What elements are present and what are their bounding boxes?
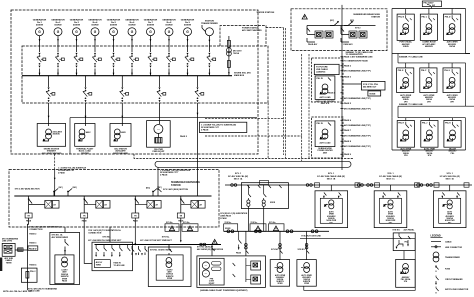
- row2 connector wire: [398, 54, 455, 68]
- generator G7: [144, 18, 158, 52]
- legend row transformer: [433, 252, 439, 262]
- svg-text:PAGE: PAGE: [82, 220, 88, 223]
- svg-text:TERM: TERM: [96, 264, 102, 266]
- svg-text:480V: 480V: [121, 131, 126, 134]
- svg-text:4KV SUBMARINE LINE (TYP): 4KV SUBMARINE LINE (TYP): [344, 134, 371, 137]
- swgr feed wire BB1: [64, 227, 66, 232]
- breaker CB-G4: [92, 53, 101, 68]
- bus tie switch S1: [54, 187, 63, 196]
- svg-text:4KV SUBMARINE LINE (TYP): 4KV SUBMARINE LINE (TYP): [344, 145, 371, 148]
- generator G5: [107, 18, 121, 52]
- svg-text:PNL W: PNL W: [317, 78, 323, 80]
- branch drop continuation wires: [84, 218, 181, 263]
- transformer box TB2: [75, 124, 95, 155]
- node box MB2: [197, 231, 266, 287]
- svg-text:ULT LOAD CKT SW SECT XFMR SECT: ULT LOAD CKT SW SECT XFMR SECT: [140, 239, 173, 242]
- station transformer circle: [201, 20, 218, 53]
- svg-text:4KV SWITCHBOARD: 4KV SWITCHBOARD: [242, 29, 262, 32]
- lower bus box LB3 with warning triangle W4: [269, 222, 285, 232]
- svg-text:PAGE 7: PAGE 7: [344, 129, 351, 132]
- svg-text:SUBMERGED BRANCHING: SUBMERGED BRANCHING: [171, 181, 200, 184]
- submarine cable dashed trunk E: [308, 54, 310, 158]
- svg-text:NODE: NODE: [270, 202, 276, 204]
- svg-text:AUTO LOAD: AUTO LOAD: [320, 96, 332, 99]
- riser wire from station: [341, 5, 343, 170]
- svg-text:NOTE: ALL CBL No.1 ARE TYP.: NOTE: ALL CBL No.1 ARE TYP.: [3, 290, 32, 293]
- svg-text:2 PAGE: 2 PAGE: [58, 172, 66, 175]
- svg-text:SW: SW: [432, 5, 435, 7]
- generator G1: [33, 18, 47, 52]
- svg-text:500KW: 500KW: [91, 24, 99, 26]
- svg-text:FUSE: FUSE: [445, 268, 451, 270]
- legend row cable: [431, 240, 441, 242]
- svg-text:PNL G: PNL G: [444, 70, 450, 72]
- svg-text:AUX. SWITCHBOARD: AUX. SWITCHBOARD: [41, 152, 62, 155]
- svg-text:4KV SUBMARINE LINE (TYP): 4KV SUBMARINE LINE (TYP): [344, 97, 371, 100]
- svg-text:SHORE STATION: SHORE STATION: [257, 11, 275, 14]
- submarine cable dashed route B: [205, 28, 286, 159]
- svg-text:PAGE 6: PAGE 6: [344, 119, 351, 122]
- inner dashed switchboard enclosure: [22, 46, 268, 103]
- aux panel box A: [393, 233, 415, 251]
- svg-text:FEED EQUIP: FEED EQUIP: [153, 151, 165, 153]
- feeder breaker CB-F3: [120, 87, 129, 102]
- svg-text:500KW: 500KW: [54, 24, 62, 26]
- svg-text:SECT. 1D: SECT. 1D: [445, 178, 454, 180]
- load center box LC5: [420, 68, 437, 93]
- svg-text:SECT. 1A: SECT. 1A: [234, 177, 243, 180]
- svg-text:500KW: 500KW: [110, 24, 118, 26]
- lower bus box LB2 with warning triangle W3: [250, 222, 266, 232]
- svg-text:PNL C: PNL C: [422, 16, 428, 18]
- svg-text:4KV SWGR BRKR: 4KV SWGR BRKR: [52, 236, 69, 239]
- svg-text:(NC): (NC): [59, 187, 63, 189]
- feeder F3 wire: [121, 76, 123, 87]
- svg-text:TO 4KV LINE: TO 4KV LINE: [114, 264, 126, 267]
- svg-text:PNL F: PNL F: [421, 70, 427, 72]
- svg-text:PAGE 5: PAGE 5: [344, 102, 352, 105]
- svg-text:PAGE 2: PAGE 2: [180, 135, 187, 138]
- right column enclosure row1: [455, 9, 466, 54]
- svg-text:PAGE W: PAGE W: [29, 247, 37, 250]
- svg-text:4KV SUBMARINE LINE (TYP): 4KV SUBMARINE LINE (TYP): [344, 124, 371, 127]
- feeder breaker CB-F4: [157, 87, 166, 102]
- lower bus box LB0a with warning triangle: [165, 222, 179, 232]
- svg-text:SYS NO.: SYS NO.: [271, 249, 279, 251]
- outer dashed enclosure shore station: [11, 10, 258, 154]
- legend row switch disconnector: [436, 287, 439, 294]
- substation box SB2: [297, 231, 316, 286]
- svg-text:2 PAGE: 2 PAGE: [220, 217, 227, 220]
- note box SYS2 TGL: [342, 81, 385, 96]
- aux panel enclosure: [300, 239, 415, 291]
- svg-text:SYS NO. 1B 4KV SWGR: SYS NO. 1B 4KV SWGR: [150, 248, 172, 251]
- svg-text:PAGE: PAGE: [26, 220, 32, 223]
- svg-text:PNL: PNL: [405, 242, 408, 244]
- svg-text:SYS NO.: SYS NO.: [298, 249, 306, 251]
- svg-text:480V 3PH: 480V 3PH: [321, 102, 330, 105]
- svg-text:480/208V: 480/208V: [425, 45, 434, 48]
- svg-text:300KVA: 300KVA: [53, 133, 61, 136]
- breaker CB-ST: [207, 53, 216, 68]
- svg-text:500KW: 500KW: [165, 24, 173, 26]
- bottom bus small drops: [132, 246, 147, 255]
- svg-text:500KW: 500KW: [147, 24, 155, 26]
- svg-text:2/C 4KV SUB CABLE (W): 2/C 4KV SUB CABLE (W): [379, 175, 402, 178]
- note box shore cable: [199, 122, 246, 132]
- svg-text:PAGE 3: PAGE 3: [344, 76, 351, 79]
- main riser wire left: [27, 218, 28, 290]
- breaker CB-G5: [111, 53, 120, 68]
- feeder F5 wire: [197, 76, 199, 87]
- dashed wrap around auto load boxes 1: [312, 58, 344, 102]
- fuse F-ST: [227, 40, 230, 47]
- equipment room enclosure line: [70, 118, 257, 154]
- svg-text:SYS 3 4KV (BUS) SECTION: SYS 3 4KV (BUS) SECTION: [163, 188, 188, 191]
- node row bus: [225, 184, 472, 186]
- svg-text:PAGE: PAGE: [133, 220, 139, 223]
- auto load center box 1: [315, 76, 335, 100]
- svg-text:(NC): (NC): [330, 20, 334, 22]
- svg-text:4KV SUBMARINE LINE (TYP): 4KV SUBMARINE LINE (TYP): [344, 107, 371, 110]
- legend row line connector: [431, 246, 441, 248]
- repeater joint box JB: [241, 181, 288, 209]
- breaker CB-G9: [185, 53, 194, 68]
- load center box LC8: [421, 121, 438, 148]
- lower bus box LB1: [224, 222, 238, 232]
- load center box LC3: [444, 14, 461, 40]
- JB left joints: [231, 184, 237, 187]
- svg-text:LINE (TYP): LINE (TYP): [2, 241, 12, 243]
- cable terminal box T1: [2, 243, 15, 256]
- svg-text:PAGE 9: PAGE 9: [344, 153, 351, 156]
- riser left labels: [2, 225, 63, 266]
- svg-text:SWGR: SWGR: [225, 228, 231, 230]
- svg-text:(SUBSEA CABLE PLANT POWERFEED: (SUBSEA CABLE PLANT POWERFEED EQUIPMENT): [200, 289, 248, 292]
- svg-text:PNL J: PNL J: [422, 123, 427, 125]
- svg-text:500KW: 500KW: [73, 24, 81, 26]
- 4kV main bus: [22, 75, 232, 77]
- svg-text:PAGE: PAGE: [236, 252, 242, 255]
- svg-text:TERM: TERM: [6, 262, 12, 264]
- feeder breaker CB-F5: [195, 87, 204, 102]
- PNL header box: [422, 1, 441, 7]
- svg-text:TRANSFORMER: TRANSFORMER: [201, 22, 218, 25]
- svg-text:STATION: STATION: [171, 184, 181, 187]
- branch group BG6: [341, 26, 367, 47]
- svg-text:XFMR: XFMR: [278, 283, 284, 285]
- svg-text:SUBMAR. TV CABLE LINE: SUBMAR. TV CABLE LINE: [399, 56, 423, 59]
- svg-text:MAIN BUS: MAIN BUS: [234, 74, 245, 77]
- swgr box BB1: [50, 232, 80, 284]
- svg-text:PAGE 4: PAGE 4: [29, 264, 37, 267]
- generator G2: [51, 18, 65, 52]
- svg-text:···: ···: [205, 273, 208, 276]
- svg-text:SYS 2: SYS 2: [355, 28, 361, 30]
- auto load center box 2: [315, 121, 335, 147]
- svg-text:30KVA: 30KVA: [449, 45, 455, 48]
- top-right station dashed enclosure: [291, 9, 387, 51]
- right column enclosure row2: [455, 54, 470, 107]
- svg-text:SWITCHBOARD: SWITCHBOARD: [113, 152, 128, 155]
- T1 link wire: [15, 249, 27, 251]
- svg-text:PNL D: PNL D: [445, 16, 451, 18]
- svg-text:SWITCH DISCONNECTOR: SWITCH DISCONNECTOR: [445, 289, 469, 291]
- svg-text:PAGE 2: PAGE 2: [29, 233, 36, 236]
- transformer box TB1: [37, 124, 65, 155]
- generator G9: [181, 18, 195, 52]
- svg-text:30KVA: 30KVA: [403, 45, 409, 48]
- warning triangle W1: [302, 14, 307, 19]
- branch group BG3: [132, 196, 161, 223]
- page W box: [28, 246, 38, 250]
- svg-text:SYS No.: SYS No.: [162, 237, 170, 239]
- node station box N1: [315, 185, 348, 228]
- svg-text:PNL B: PNL B: [398, 16, 404, 18]
- svg-text:(NO): (NO): [73, 187, 78, 189]
- branching station dashed enclosure: [9, 170, 219, 228]
- bus junction arrows: [39, 73, 41, 75]
- svg-text:···: ···: [205, 265, 208, 268]
- submarine cable dashed route C: [205, 54, 302, 161]
- breaker CB-G2: [55, 53, 64, 68]
- svg-text:PNL 2: PNL 2: [30, 271, 35, 273]
- submarine cable bundle stadium: [155, 161, 351, 167]
- svg-text:CONNECTION: CONNECTION: [88, 233, 102, 235]
- breaker CB-G7: [148, 53, 157, 68]
- svg-text:PAGE 4KV: PAGE 4KV: [344, 43, 354, 46]
- generator G4: [88, 18, 102, 52]
- svg-text:PNL K: PNL K: [445, 123, 451, 125]
- svg-text:75KVA: 75KVA: [233, 52, 240, 55]
- svg-text:(W) NEW CUT: (W) NEW CUT: [363, 87, 377, 89]
- power station dashed bump: [220, 26, 266, 46]
- svg-text:NODE: NODE: [370, 94, 377, 96]
- node box MB1: [148, 245, 191, 287]
- fuse FL1: [18, 248, 23, 251]
- load center box LC9: [444, 121, 461, 148]
- svg-text:2/C 4KV SUB CBL (W): 2/C 4KV SUB CBL (W): [440, 175, 460, 178]
- breaker CB-G6: [129, 53, 138, 68]
- svg-text:EQUIP: EQUIP: [209, 283, 215, 285]
- header connector wire: [405, 7, 454, 15]
- svg-text:CIRCUIT BREAKER: CIRCUIT BREAKER: [445, 278, 463, 281]
- svg-text:SECT. 1C: SECT. 1C: [386, 178, 395, 180]
- bottom distribution bus: [95, 244, 222, 246]
- generator G6: [125, 18, 139, 52]
- svg-text:2 PAGE: 2 PAGE: [201, 128, 209, 131]
- lower right bus: [224, 230, 329, 232]
- svg-text:480V: 480V: [86, 131, 91, 134]
- legend row fuse: [436, 265, 439, 272]
- svg-text:4KV SWGR (W) SUBSTATION: 4KV SWGR (W) SUBSTATION: [197, 248, 224, 251]
- riser lower fuse: [227, 61, 230, 68]
- future use box: [314, 64, 339, 74]
- svg-text:CONNECTION: CONNECTION: [29, 229, 43, 231]
- svg-text:PNL W: PNL W: [317, 123, 323, 125]
- load center box LC7: [397, 121, 414, 148]
- svg-text:PNL H: PNL H: [398, 123, 404, 125]
- shore feeder into branching station: [54, 154, 56, 170]
- svg-text:SUBMERGED BRANCHING: SUBMERGED BRANCHING: [353, 13, 380, 16]
- svg-text:SYS NO.: SYS NO.: [102, 237, 111, 239]
- generator G8: [162, 18, 176, 52]
- svg-text:SECT. 1B: SECT. 1B: [327, 178, 336, 180]
- transformer box TB3: [110, 124, 131, 155]
- submarine TV cable line: [392, 53, 470, 55]
- lower bus drop D1: [239, 231, 242, 249]
- row3 connector wire: [398, 106, 454, 120]
- panel box T2: [21, 268, 37, 282]
- svg-text:TO OBSERVATORY NODE: TO OBSERVATORY NODE: [344, 60, 369, 63]
- feeder F4 wire: [159, 76, 161, 87]
- generator G3: [70, 18, 84, 52]
- svg-text:SYS NO.: SYS NO.: [392, 230, 400, 232]
- svg-text:LINE CONNECTOR: LINE CONNECTOR: [445, 247, 463, 249]
- svg-text:2/C 4KV SUB CABLE LINE (W): 2/C 4KV SUB CABLE LINE (W): [317, 175, 345, 178]
- svg-text:PAGE 8: PAGE 8: [344, 140, 352, 143]
- power station feed line: [228, 36, 230, 76]
- svg-text:500KW: 500KW: [36, 24, 44, 26]
- svg-text:LEGEND: LEGEND: [431, 235, 441, 238]
- bus end joints: [200, 243, 206, 246]
- mid column line: [398, 105, 474, 107]
- aux panel AB wire: [403, 251, 405, 260]
- right column enclosure row3: [392, 118, 466, 150]
- breaker CB-G1: [37, 53, 46, 68]
- substation feed wire BB2: [109, 227, 111, 242]
- tie switch S4: [330, 20, 339, 26]
- bus entry switch S0: [146, 186, 162, 192]
- branch group BG5: [307, 26, 333, 47]
- riser tick labels: [328, 56, 373, 157]
- bus tie switch S3: [153, 187, 162, 196]
- svg-text:PAGE 1 4KV SUBMARINE LINE: PAGE 1 4KV SUBMARINE LINE: [344, 56, 373, 59]
- svg-text:ULT LOAD BRK PNL SWBD XFMR SEC: ULT LOAD BRK PNL SWBD XFMR SECT: [88, 239, 122, 242]
- feeder breaker CB-F2: [83, 87, 92, 102]
- JB drop wires: [248, 206, 263, 231]
- branch group BG4: [177, 196, 205, 223]
- load center box LC4: [397, 68, 414, 93]
- svg-text:PAGE 2: PAGE 2: [344, 65, 351, 68]
- warning triangle W2: [212, 239, 217, 244]
- svg-text:(NO): (NO): [350, 20, 355, 22]
- load center box LC1: [397, 14, 414, 40]
- feeder F1 wire: [48, 76, 50, 87]
- svg-text:PAGE 4KV: PAGE 4KV: [308, 43, 318, 46]
- node bus joints: [306, 184, 432, 187]
- node bus LT boxes: [315, 183, 470, 187]
- breaker CB-G3: [74, 53, 83, 68]
- svg-text:PAGE: PAGE: [62, 280, 68, 283]
- shore cable exit dashed wire: [134, 154, 354, 158]
- svg-text:SYS 3 4KV (BUS) SECTION: SYS 3 4KV (BUS) SECTION: [15, 187, 40, 190]
- left edge mark: [0, 258, 2, 272]
- feeder breaker CB-F1: [46, 87, 55, 102]
- svg-text:PNL E: PNL E: [398, 70, 404, 72]
- svg-text:XFMR: XFMR: [304, 283, 310, 285]
- svg-text:2/C 4KV SUB CBL (W): 2/C 4KV SUB CBL (W): [228, 175, 248, 178]
- load center box LC2: [420, 14, 437, 40]
- svg-text:STATION: STATION: [371, 16, 380, 19]
- substation box BB2: [92, 242, 133, 271]
- aux panel box B: [396, 259, 416, 287]
- svg-text:CABLE: CABLE: [445, 240, 452, 243]
- node station box N3: [433, 185, 466, 228]
- branching 4kV bus: [14, 195, 211, 197]
- dashed wrap around auto load boxes 2: [312, 117, 344, 158]
- svg-text:4KV SUBMARINE LINE (TYP): 4KV SUBMARINE LINE (TYP): [344, 70, 371, 73]
- breaker CB-G8: [166, 53, 175, 68]
- bus tie switch S2: [68, 187, 78, 196]
- svg-text:LANDING: LANDING: [316, 71, 326, 74]
- svg-text:AUX PANEL: AUX PANEL: [404, 229, 416, 232]
- svg-text:TRANSFORMER: TRANSFORMER: [445, 256, 460, 259]
- PFE box TB4: [147, 121, 171, 154]
- riser tick marks: [341, 57, 344, 155]
- svg-text:2 PAGE: 2 PAGE: [160, 174, 168, 177]
- svg-text:500KW: 500KW: [184, 24, 192, 26]
- svg-text:CENTER: CENTER: [81, 153, 90, 155]
- svg-text:SYS 2 TGL PNL: SYS 2 TGL PNL: [363, 84, 379, 86]
- svg-text:500KW: 500KW: [128, 24, 136, 26]
- right column left riser: [392, 9, 405, 118]
- cable bundle drop wire: [157, 167, 159, 196]
- branch group BG1: [25, 196, 59, 223]
- internal bus top-right station: [307, 25, 376, 27]
- substation box SB1: [270, 231, 289, 286]
- svg-text:(NC): (NC): [158, 187, 162, 189]
- svg-text:SUBMAR. TV CABLE LINE: SUBMAR. TV CABLE LINE: [399, 103, 423, 106]
- submarine cable dashed route A: [267, 103, 269, 158]
- branch group BG2: [81, 196, 110, 223]
- svg-text:SYS (W) TO 4KV LINE: SYS (W) TO 4KV LINE: [301, 234, 321, 237]
- svg-text:PAGE 3: PAGE 3: [29, 242, 36, 245]
- svg-text:AUTO LOAD: AUTO LOAD: [320, 142, 332, 145]
- load center box LC6: [443, 68, 460, 93]
- node station box N2: [374, 185, 407, 228]
- transformer T-ST: [227, 48, 232, 56]
- svg-text:XFMR: XFMR: [167, 278, 173, 280]
- feeder F2 wire: [85, 76, 87, 87]
- lower bus box LB0b with warning triangle: [182, 222, 198, 232]
- svg-text:···: ···: [157, 127, 160, 131]
- svg-text:(NC): (NC): [146, 188, 150, 190]
- lower bus cable joints: [227, 230, 318, 233]
- tie switch S5: [344, 20, 355, 26]
- legend row circuit breaker: [436, 276, 439, 283]
